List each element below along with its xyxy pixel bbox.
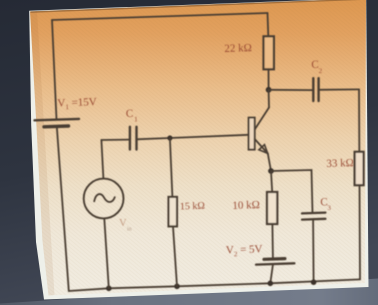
wire base (170, 135, 249, 138)
wire top rail (52, 13, 268, 20)
svg-text:15 kΩ: 15 kΩ (180, 201, 205, 213)
wire emitter bend (268, 154, 271, 172)
resistor R 22k box (264, 36, 274, 69)
transistor Q1 emitter arrowhead (259, 145, 268, 154)
wire C3 bottom lead (312, 219, 315, 282)
wire 22k bottom lead (268, 69, 270, 90)
wire 15k bottom lead (173, 226, 177, 286)
node emitter dot (268, 168, 274, 174)
paper top edge shadow line (31, 0, 366, 12)
node collector dot (266, 87, 272, 93)
wire collector to C2 (269, 89, 314, 91)
wire collector down lead (268, 90, 270, 108)
node AC bottom dot (106, 286, 112, 292)
svg-text:C: C (126, 108, 134, 120)
capacitor C3 bottom plate (302, 218, 325, 221)
wire emitter to C3 corner (271, 170, 313, 213)
capacitor C2 left plate (312, 78, 314, 101)
wire collector diagonal (255, 108, 269, 130)
resistor R 10k box (267, 192, 277, 224)
wire C2 to right rail (319, 88, 359, 90)
node 15k bottom dot (174, 284, 180, 290)
wire right rail (359, 89, 360, 279)
wire emitter down lead (271, 171, 272, 192)
resistor R 33k box (355, 152, 364, 185)
transistor Q1 base bar (249, 118, 255, 150)
AC source Vin circle (84, 179, 124, 219)
resistor R 15k box (169, 197, 178, 227)
svg-text:10 kΩ: 10 kΩ (232, 199, 260, 212)
battery V2 short plate (264, 257, 285, 261)
wire 10k to battery V2 (271, 224, 274, 258)
wire C1 left lead (101, 139, 129, 141)
node V2 bottom dot (268, 281, 274, 287)
wire C1 to base node (137, 138, 170, 139)
battery V1 short plate (44, 124, 69, 128)
svg-text:in: in (127, 226, 132, 232)
wire left rail lower (57, 127, 69, 292)
transistor Q1 emitter diagonal (255, 139, 268, 154)
paper left edge shadow (30, 11, 55, 295)
node C3 bottom dot (311, 279, 317, 285)
wire AC bottom lead (104, 218, 109, 288)
battery V2 long plate (256, 263, 294, 264)
AC source sine symbol (94, 194, 115, 202)
capacitor C1 left plate (129, 127, 131, 150)
node base dot (167, 135, 172, 140)
svg-text:22 kΩ: 22 kΩ (224, 42, 252, 55)
capacitor C2 right plate (317, 78, 319, 101)
wire left rail upper (52, 20, 57, 120)
wire V2 bottom lead (270, 265, 273, 284)
capacitor C3 top plate (302, 211, 325, 214)
wire AC top lead (101, 140, 103, 179)
battery V1 long plate (35, 119, 80, 120)
svg-text:33 kΩ: 33 kΩ (326, 157, 354, 170)
wire 15k top lead (170, 138, 173, 197)
wire collector top lead (267, 13, 270, 36)
capacitor C1 right plate (135, 127, 137, 150)
bottom gray desk band (0, 279, 378, 305)
wire bottom rail (69, 279, 360, 291)
